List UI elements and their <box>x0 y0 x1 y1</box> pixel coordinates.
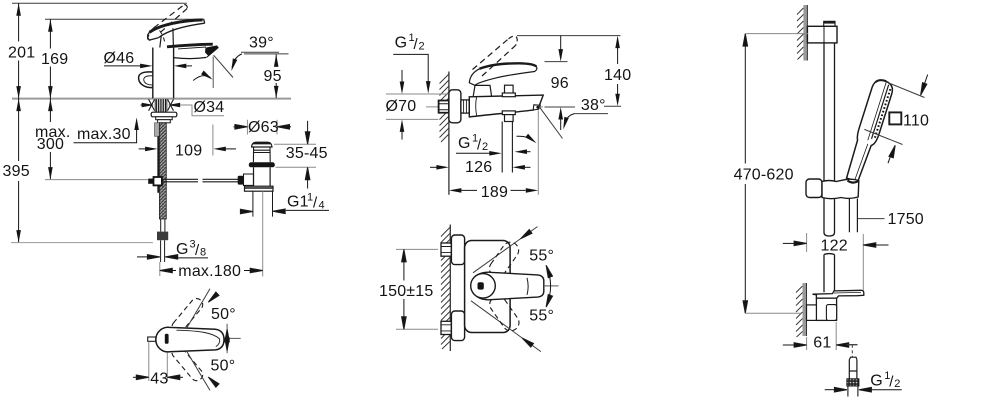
holder knob <box>806 179 822 198</box>
dim 95 <box>275 54 277 98</box>
face plate lines <box>872 85 889 139</box>
470-620 top ext <box>745 33 808 35</box>
leader max.30 <box>74 129 137 143</box>
pipe below <box>848 386 858 397</box>
dashed lever down 55 <box>487 293 523 334</box>
svg-text:max.30: max.30 <box>77 126 131 143</box>
110 arrow upper <box>924 75 927 85</box>
small arrow left near pipe <box>525 151 531 153</box>
ref line 395 bottom <box>11 242 153 244</box>
svg-text:122: 122 <box>821 237 848 254</box>
svg-text:50°: 50° <box>211 357 236 374</box>
hose <box>849 199 857 233</box>
tailpipe centerline <box>262 191 264 276</box>
svg-text:8: 8 <box>200 246 206 258</box>
waste set <box>137 120 329 277</box>
G1/2 top label leader <box>393 54 428 82</box>
svg-text:50°: 50° <box>211 306 236 323</box>
39deg double line <box>241 51 279 53</box>
wall top <box>803 5 807 61</box>
outlet pipe down <box>502 122 512 173</box>
cartridge dome <box>471 274 496 299</box>
dim 35-45 <box>307 121 309 133</box>
bracket body <box>816 298 836 320</box>
handle grip inner line <box>527 278 528 295</box>
horizontal rod <box>162 179 239 182</box>
wall mount plate <box>807 305 817 321</box>
deck hatch right of shank <box>168 99 174 111</box>
rail cap <box>824 21 835 26</box>
spout tip dark wedge <box>205 45 219 56</box>
wall hatch <box>440 74 449 142</box>
svg-text:109: 109 <box>175 143 202 160</box>
bottom flange <box>451 311 464 341</box>
top ref line <box>517 35 621 37</box>
side port knob <box>238 176 244 185</box>
lever neck <box>160 28 174 47</box>
waste cap <box>252 142 272 147</box>
head top accent <box>875 78 886 85</box>
hose lower tube <box>161 219 165 232</box>
55deg upper axis line <box>473 227 537 273</box>
faucet body <box>139 5 240 262</box>
waste neck <box>253 147 270 162</box>
dim 169 <box>49 19 51 98</box>
centerline <box>544 285 559 287</box>
swing arc <box>546 266 550 306</box>
face dots <box>875 89 890 138</box>
union nut <box>461 100 469 113</box>
solid lever <box>469 63 537 85</box>
outlet level ref line 96 <box>545 106 576 108</box>
svg-text:300: 300 <box>37 136 64 153</box>
110 ext line upper <box>886 82 925 98</box>
hose end dashed centerline <box>846 344 857 346</box>
svg-text:55°: 55° <box>529 247 554 264</box>
lever tip <box>204 19 205 23</box>
bottom port <box>502 111 515 115</box>
G1/2 mid leader <box>456 152 490 154</box>
svg-text:110: 110 <box>903 112 929 129</box>
dim 395 <box>18 99 20 243</box>
lever bottom edge <box>158 23 204 38</box>
O63 ext lines <box>247 120 277 135</box>
svg-text:G: G <box>395 35 408 52</box>
lever top ref line <box>545 61 568 63</box>
waste flange dark ring <box>249 162 275 167</box>
pop-up knob hook <box>139 72 153 88</box>
aerator at tip <box>533 105 540 110</box>
body inner line <box>476 97 477 116</box>
body and spout <box>469 95 543 117</box>
38deg line <box>575 113 609 115</box>
50deg line upper <box>186 289 210 329</box>
flexible hose braid <box>159 123 166 219</box>
rail lower segment <box>824 254 835 293</box>
waste body <box>254 167 271 186</box>
dim 140 <box>617 48 619 64</box>
deck hatch left of shank <box>149 99 155 111</box>
hose tip <box>161 240 165 262</box>
dim 61 <box>806 337 808 350</box>
svg-text:max.180: max.180 <box>178 263 241 280</box>
top hex nut <box>441 243 451 256</box>
handle inner line <box>855 143 868 180</box>
svg-text:43: 43 <box>150 370 168 387</box>
hose nut G3/8 <box>157 232 168 241</box>
470-620 bottom ext <box>745 312 801 314</box>
lever back end <box>148 32 159 40</box>
pop-up vertical rod <box>157 136 159 193</box>
38deg arc <box>564 114 574 126</box>
handle lever front <box>475 272 544 300</box>
svg-text:169: 169 <box>41 51 68 68</box>
head and handle body <box>844 78 895 183</box>
small arc near pipe <box>517 136 534 140</box>
stream line 38deg <box>539 106 563 139</box>
110 arrow lower <box>888 154 892 164</box>
centerline <box>426 106 543 108</box>
spout top edge thick <box>167 44 213 47</box>
svg-text:2: 2 <box>894 378 900 390</box>
rod cross fitting <box>148 179 153 184</box>
knurled nut <box>847 379 859 386</box>
texts drawing 1 <box>3 34 328 280</box>
G1 1/4 arrows <box>240 211 242 213</box>
svg-text:Ø70: Ø70 <box>386 98 417 115</box>
39deg arc <box>232 54 242 68</box>
dashed raised lever <box>473 39 509 70</box>
svg-text:189: 189 <box>481 184 508 201</box>
body column <box>153 47 174 99</box>
svg-text:470-620: 470-620 <box>734 167 794 184</box>
top port <box>505 85 514 93</box>
wall hatch <box>441 227 450 349</box>
flange bottom ref line <box>276 166 317 168</box>
G1/2 bottom dim <box>825 389 835 391</box>
threaded shank <box>155 99 168 112</box>
hose end fitting <box>849 357 857 379</box>
dim 126 <box>430 166 437 168</box>
50deg line lower <box>186 351 210 391</box>
svg-text:126: 126 <box>465 159 492 176</box>
svg-text:4: 4 <box>319 199 325 211</box>
O70 ext lines <box>386 94 448 119</box>
svg-text:G: G <box>458 135 471 152</box>
110 ext line lower <box>864 129 902 144</box>
stream line 39deg <box>214 55 233 77</box>
dim 43 <box>149 342 168 381</box>
tailpipe <box>253 191 273 216</box>
dim 96 <box>560 36 562 50</box>
wall face line <box>449 225 451 352</box>
cartridge block <box>473 85 491 96</box>
svg-text:201: 201 <box>8 45 35 62</box>
outlet level ref line 140 <box>604 105 621 107</box>
dashed lever up 55 <box>486 239 522 280</box>
svg-text:G: G <box>870 372 883 389</box>
svg-text:61: 61 <box>813 334 831 351</box>
grey pull rod tube <box>155 123 160 137</box>
small dim right <box>226 324 228 353</box>
svg-text:G: G <box>176 241 189 258</box>
ext line spout tip upper <box>212 57 214 89</box>
tray arm <box>813 290 864 298</box>
svg-text:39°: 39° <box>249 34 274 51</box>
ref line 169 level <box>45 18 204 20</box>
svg-text:38°: 38° <box>581 97 606 114</box>
bottom band <box>245 186 274 191</box>
svg-text:2: 2 <box>482 141 488 153</box>
ext line spout tip lower <box>212 125 214 156</box>
dashed handle rotated down 50 <box>170 344 206 383</box>
mixer body front <box>465 241 511 333</box>
svg-text:55°: 55° <box>529 307 554 324</box>
dashed raised lever <box>154 5 185 28</box>
dim 150+-15 <box>403 261 405 317</box>
dim 109 <box>139 148 146 150</box>
side port cylinder <box>244 174 254 185</box>
arrow left at body right edge <box>185 65 192 67</box>
svg-text:G1: G1 <box>287 193 309 210</box>
G3/8 arrows <box>137 256 148 258</box>
55deg lower axis line <box>471 301 541 352</box>
svg-text:395: 395 <box>3 163 30 180</box>
deck line <box>12 98 291 100</box>
svg-text:2: 2 <box>419 40 425 52</box>
1750 leader <box>858 218 885 220</box>
dim max.180 <box>159 262 161 276</box>
dim 122 <box>806 233 808 252</box>
150 ext lines <box>396 249 438 329</box>
centerline right <box>224 337 241 339</box>
ref line top (201 level) <box>12 2 187 4</box>
mounting nut <box>151 112 177 117</box>
wall nut <box>439 101 449 113</box>
protrusion left <box>148 337 156 341</box>
O63 arrows <box>234 126 237 128</box>
cap top ref line <box>274 143 316 145</box>
svg-text:35-45: 35-45 <box>286 145 328 162</box>
handle slot <box>478 282 484 289</box>
rail upper <box>824 43 835 181</box>
O34 arrows and leader <box>141 103 225 116</box>
svg-text:Ø63: Ø63 <box>248 119 279 136</box>
dim 201 <box>18 3 20 98</box>
svg-text:Ø46: Ø46 <box>104 50 135 67</box>
holder body <box>822 179 859 198</box>
handle slot mark <box>165 334 169 344</box>
top flange <box>451 235 464 265</box>
bottom hex nut <box>441 321 451 334</box>
svg-text:96: 96 <box>551 75 569 92</box>
top bracket <box>807 26 837 43</box>
O70 arrows <box>401 70 403 82</box>
square symbol <box>889 112 901 124</box>
svg-text:140: 140 <box>604 67 631 84</box>
spout underside <box>174 57 207 58</box>
svg-text:95: 95 <box>264 68 282 85</box>
leader O46 <box>104 65 141 67</box>
svg-text:/: / <box>313 195 318 212</box>
dim max.300 <box>49 99 51 180</box>
svg-text:1750: 1750 <box>888 211 924 228</box>
svg-text:Ø34: Ø34 <box>194 99 225 116</box>
solid lever top edge <box>150 20 203 32</box>
dim 470-620 <box>744 34 746 314</box>
swivel arc under spout <box>193 76 210 81</box>
ext line spout tip <box>537 111 539 195</box>
ref line max300 bottom <box>45 179 148 181</box>
dim 189 <box>462 189 526 191</box>
svg-text:150±15: 150±15 <box>379 283 433 300</box>
wall face line <box>448 72 450 195</box>
handshower group <box>844 78 895 184</box>
dashed handle rotated up 50 <box>170 296 206 335</box>
wall bottom <box>803 283 807 336</box>
flange <box>449 90 461 123</box>
solid handle top view <box>156 327 224 352</box>
